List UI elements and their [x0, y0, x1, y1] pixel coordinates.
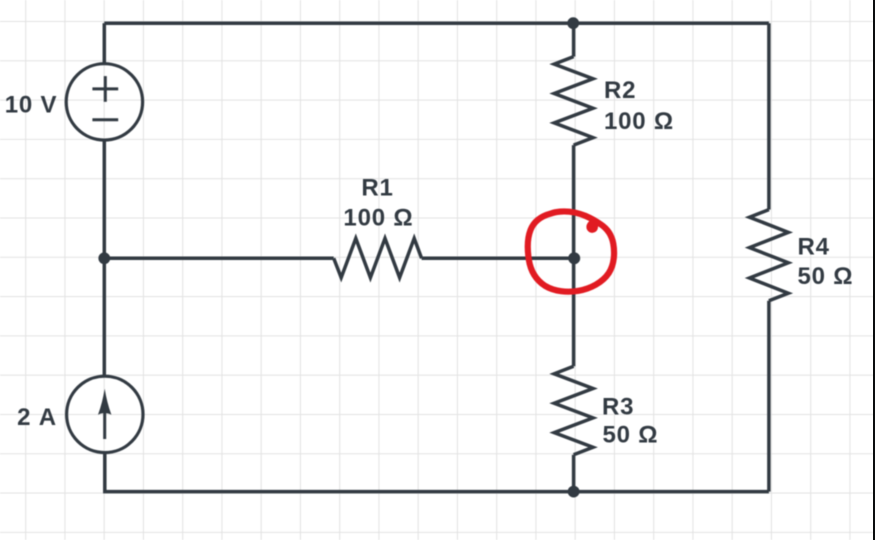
voltage source V1 (10 V)	[66, 64, 142, 140]
wire left middle (V1 bottom to node A, then to I1 top)	[103, 140, 107, 376]
svg-text:50 Ω: 50 Ω	[798, 263, 854, 290]
svg-text:R4: R4	[798, 234, 830, 261]
node B (middle node, circled)	[568, 252, 580, 264]
resistor R2 (100 ohm, vertical)	[554, 57, 593, 146]
wire right upper (top-right corner down to R4)	[767, 23, 771, 209]
svg-text:2 A: 2 A	[17, 404, 57, 431]
svg-text:50 Ω: 50 Ω	[603, 421, 659, 448]
wire mid branch bottom (R3 to bottom node)	[572, 455, 576, 492]
node A (left middle junction)	[98, 252, 110, 264]
resistor R4 (50 ohm, vertical)	[750, 210, 789, 301]
wire mid horizontal right (R1 to node B)	[422, 257, 575, 261]
right panel edge	[873, 0, 875, 540]
resistor R3 (50 ohm, vertical)	[554, 366, 593, 455]
svg-text:R2: R2	[604, 77, 636, 104]
annotation red circle around node B	[528, 211, 614, 291]
svg-text:10 V: 10 V	[5, 92, 58, 119]
node bottom (junction of middle branch with bottom wire)	[568, 486, 580, 498]
wire top (from top-left corner to top-right corner)	[104, 21, 769, 25]
svg-text:R3: R3	[602, 393, 634, 420]
wire right lower (R4 to bottom-right corner)	[767, 301, 771, 492]
svg-text:R1: R1	[361, 175, 393, 202]
svg-text:100 Ω: 100 Ω	[343, 205, 413, 232]
wire mid branch (R2 bottom to node B)	[572, 145, 576, 258]
svg-text:100 Ω: 100 Ω	[604, 108, 674, 135]
wire left lower (I1 bottom to bottom-left corner, then right)	[105, 453, 769, 492]
node top (junction of middle branch with top wire)	[567, 17, 579, 29]
current source I1 (2 A)	[67, 376, 143, 452]
resistor R1 (100 ohm, horizontal)	[334, 238, 422, 277]
wire left upper (top-left corner down to V1 top)	[103, 23, 107, 63]
wire mid branch lower (node B down to R3)	[572, 258, 576, 366]
wire mid horizontal left (node A to R1)	[104, 257, 333, 261]
wire mid branch upper (top node down to R2)	[572, 23, 576, 56]
